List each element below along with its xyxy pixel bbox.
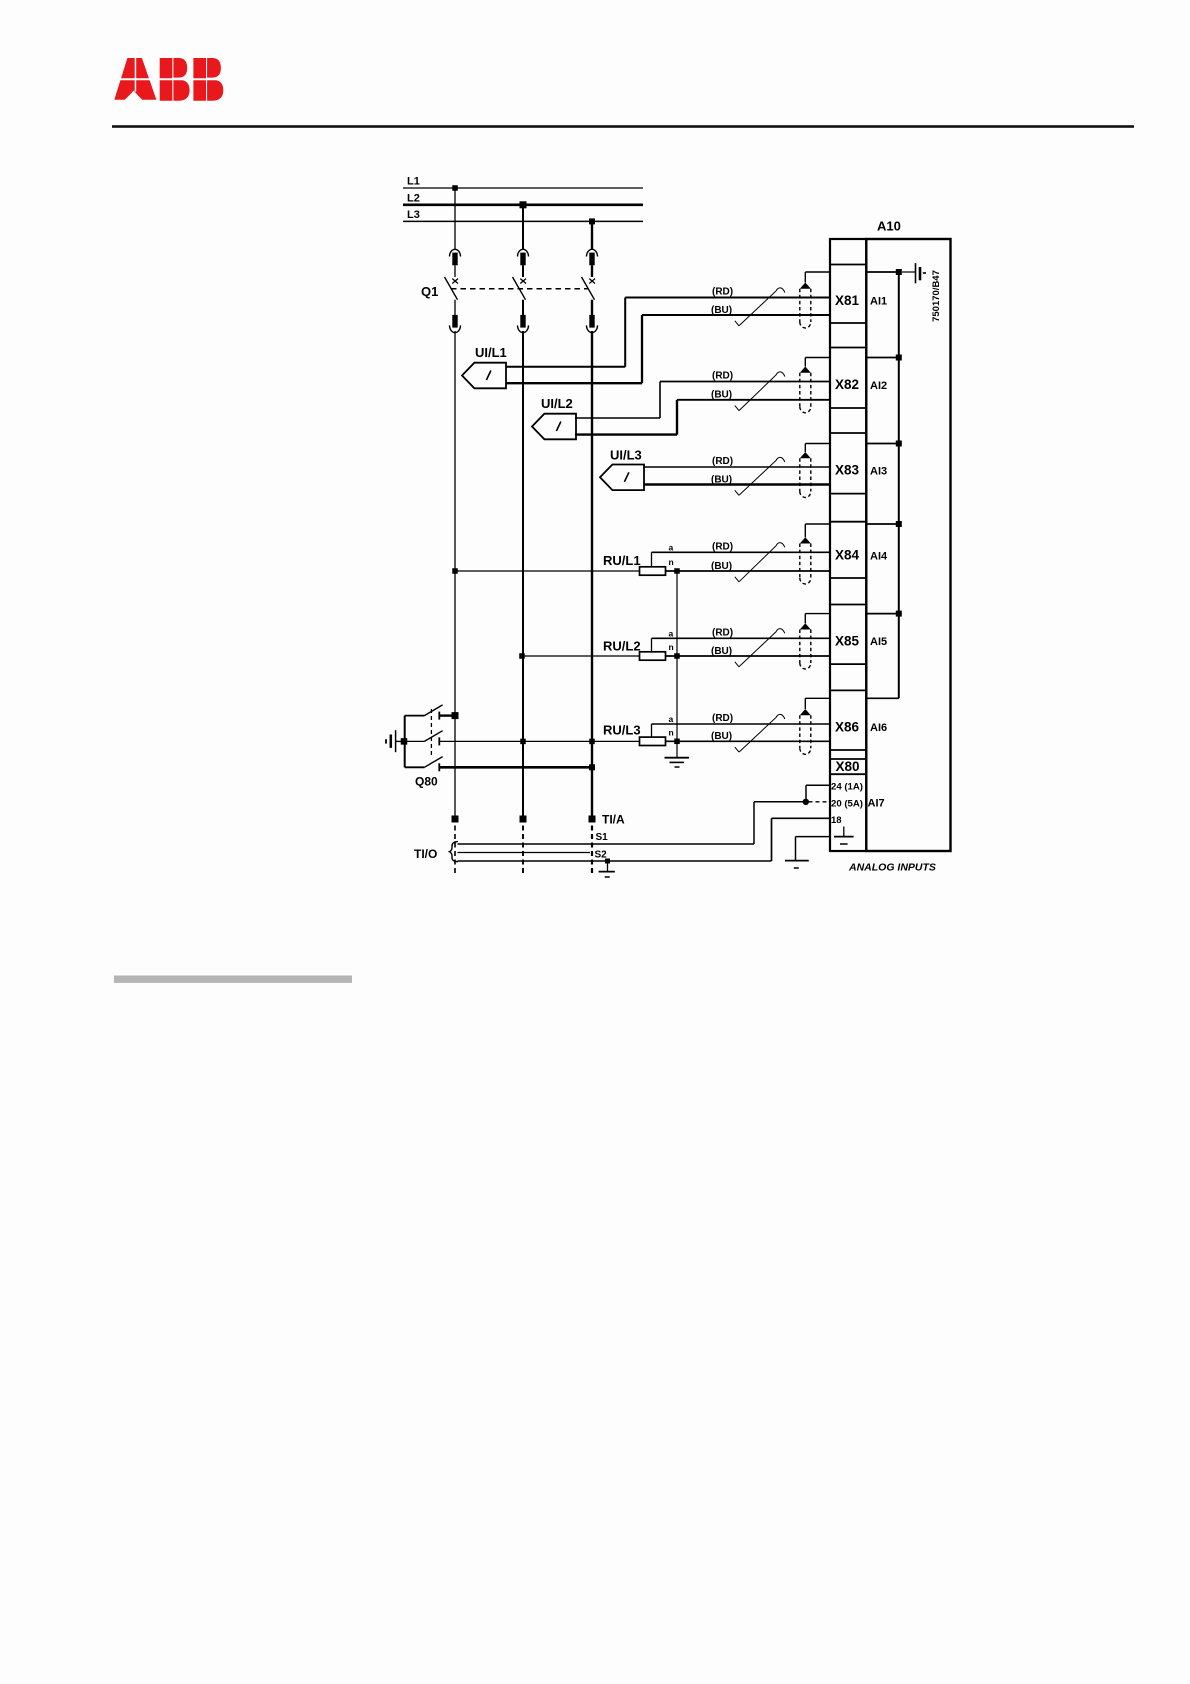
wire phase L2 into breaker <box>522 265 524 277</box>
resistor RU/L1 <box>603 553 666 575</box>
node AI1 common junction <box>896 269 902 275</box>
wire junction to S1 riser <box>754 802 806 844</box>
svg-text:X80: X80 <box>836 759 860 774</box>
node pole2 L3 junction <box>589 739 595 745</box>
svg-text:RU/L3: RU/L3 <box>603 723 641 738</box>
connector plug X86 <box>800 709 811 754</box>
connector plug phase L2 upper <box>518 249 529 265</box>
cable entry TI/O <box>450 842 459 862</box>
terminal strip divider y=604.5 <box>830 604 866 606</box>
wire AI2 drain link <box>866 357 899 359</box>
node TI/A L3 <box>589 816 596 823</box>
node TI/A L2 <box>520 816 527 823</box>
wire AI6 drain link <box>866 697 899 699</box>
wire phase L1 below breaker <box>454 300 456 315</box>
svg-text:n: n <box>669 642 674 652</box>
node AI3 common junction <box>896 441 902 447</box>
wire shield drain X81 <box>805 272 830 283</box>
chassis ground A10 <box>916 263 927 283</box>
wire Q80 pole2 to RU/L3 <box>439 740 639 742</box>
svg-text:(RD): (RD) <box>712 456 733 467</box>
linkage Q80 (dashed) <box>430 709 432 756</box>
connector plug X83 <box>800 452 811 498</box>
shield twist mark X84 <box>735 543 785 582</box>
svg-text:X82: X82 <box>835 377 859 392</box>
connector plug phase L1 upper <box>450 249 461 265</box>
terminal strip divider y=323 <box>830 322 866 324</box>
wire phase L1 main vertical <box>454 331 456 819</box>
svg-text:X84: X84 <box>835 548 860 563</box>
svg-text:UI/L2: UI/L2 <box>541 396 573 411</box>
svg-text:RU/L1: RU/L1 <box>603 553 641 568</box>
breaker Q1 contact mark pole 3 <box>589 279 595 284</box>
svg-text:18: 18 <box>831 815 842 826</box>
terminal strip divider y=264.5 <box>830 264 866 266</box>
wire AI common bus <box>898 272 900 698</box>
wire phase L2 drop from bus <box>522 205 524 249</box>
svg-text:UI/L3: UI/L3 <box>610 448 642 463</box>
ABB logo <box>110 57 226 101</box>
earthing switch Q80 pole 3 <box>405 757 443 772</box>
svg-text:AI2: AI2 <box>870 380 887 392</box>
svg-text:S2: S2 <box>595 850 608 861</box>
svg-text:20 (5A): 20 (5A) <box>831 799 863 810</box>
wire shield drain X84 <box>805 524 830 537</box>
svg-text:X86: X86 <box>835 720 860 735</box>
shield twist mark X83 <box>735 457 785 495</box>
wire RU/L2 terminal n <box>666 655 831 657</box>
bus L3 <box>403 209 643 221</box>
wire phase L3 dashed tail <box>591 826 593 877</box>
svg-text:L2: L2 <box>407 192 420 204</box>
svg-text:AI1: AI1 <box>870 296 887 308</box>
node RU/L1 n junction <box>674 568 680 574</box>
wire UI/L2 n to X82 (BU) <box>575 400 830 435</box>
shield twist mark X86 <box>735 714 785 752</box>
node Q80 ground junction <box>401 738 408 745</box>
breaker Q1 blade pole 3 <box>582 277 595 300</box>
resistor RU/L3 <box>603 723 666 746</box>
wire Q80 pole1 to L1 <box>439 714 455 716</box>
svg-text:(RD): (RD) <box>712 713 733 724</box>
node TI/A L1 <box>452 816 459 823</box>
transducer UI/L1 <box>462 345 507 388</box>
node AI5 common junction <box>896 611 902 617</box>
breaker Q1 contact mark pole 1 <box>452 279 458 284</box>
svg-text:AI7: AI7 <box>868 798 885 810</box>
shield twist mark X82 <box>735 372 785 411</box>
wire shield drain X83 <box>805 444 830 453</box>
wire shield drain X86 <box>805 698 830 709</box>
svg-text:(BU): (BU) <box>711 646 732 657</box>
svg-text:X83: X83 <box>835 463 860 478</box>
svg-text:(BU): (BU) <box>711 305 732 316</box>
svg-text:RU/L2: RU/L2 <box>603 639 641 654</box>
svg-text:AI5: AI5 <box>870 636 887 648</box>
node phase tap for RU/L2 <box>519 653 525 659</box>
earthing switch Q80 pole 1 <box>405 705 443 720</box>
wire phase L1 drop from bus <box>454 188 456 249</box>
svg-text:X81: X81 <box>835 293 860 308</box>
connector plug phase L3 upper <box>587 249 598 265</box>
wire UI/L2 a to X82 (RD) <box>575 382 830 419</box>
transducer UI/L3 <box>600 448 644 491</box>
shield twist mark X81 <box>735 288 785 326</box>
node L1 tap junction <box>452 185 458 191</box>
terminal strip divider y=521.7 <box>830 521 866 523</box>
svg-text:n: n <box>669 727 674 737</box>
wire UI/L3 a to X83 (RD) <box>644 466 830 468</box>
wire shield drain X82 <box>805 358 830 367</box>
wire Q80 pole3 to L3 <box>439 766 592 769</box>
node RU/L3 n junction <box>674 739 680 745</box>
connector plug X85 <box>800 623 811 669</box>
wire RU/L3 terminal n <box>666 740 831 742</box>
terminal strip divider y=493.6 <box>830 493 866 495</box>
terminal strip divider y=433 <box>830 432 866 434</box>
wire phase L1 into breaker <box>454 265 456 277</box>
wire phase L2 below breaker <box>522 300 524 315</box>
terminal strip divider y=578 <box>830 577 866 579</box>
node AI2 common junction <box>896 355 902 361</box>
header rule <box>112 125 1134 128</box>
wire AI3 drain link <box>866 443 899 445</box>
terminal strip divider y=664.1 <box>830 663 866 665</box>
wire UI/L3 n to X83 (BU) <box>644 483 830 485</box>
svg-text:L3: L3 <box>407 209 420 221</box>
terminal strip divider y=347.5 <box>830 347 866 349</box>
node current select junction <box>803 799 809 805</box>
connector plug phase L3 lower <box>587 315 598 333</box>
resistor RU/L2 <box>603 639 666 661</box>
wire UI/L1 a to X81 (RD) <box>506 298 830 367</box>
breaker Q1 contact mark pole 2 <box>520 279 526 284</box>
node phase tap for RU/L1 <box>452 568 458 574</box>
svg-text:(BU): (BU) <box>711 474 732 485</box>
wire phase L3 drop from bus <box>591 221 593 249</box>
wire RU/L3 tap a <box>652 724 831 737</box>
breaker Q1 blade pole 1 <box>445 277 458 300</box>
node AI4 common junction <box>896 521 902 527</box>
svg-text:L1: L1 <box>407 176 420 188</box>
ground RU common <box>665 758 690 767</box>
node RU/L2 n junction <box>674 653 680 659</box>
terminal strip X81-X86/X80 outline <box>830 239 866 851</box>
svg-text:ANALOG INPUTS: ANALOG INPUTS <box>848 862 936 874</box>
wire AI4 drain link <box>866 523 899 525</box>
wire phase L2 main vertical <box>522 331 524 819</box>
svg-text:A10: A10 <box>877 219 901 234</box>
connector plug X82 <box>800 367 811 413</box>
wire RU/L1 tap a <box>652 552 831 567</box>
node Q80 pole1 junction <box>452 712 459 719</box>
connector plug phase L2 lower <box>518 315 529 333</box>
shield twist mark X85 <box>735 629 785 667</box>
svg-text:(RD): (RD) <box>712 287 733 298</box>
wire dashed to terminal 20 <box>809 801 831 803</box>
svg-text:(BU): (BU) <box>711 731 732 742</box>
ground Q80 <box>386 730 396 752</box>
svg-text:TI/A: TI/A <box>602 813 625 827</box>
terminal strip divider y=774.2 <box>830 773 866 775</box>
svg-text:Q80: Q80 <box>415 775 438 789</box>
wire AI1 drain link <box>866 271 899 273</box>
svg-text:a: a <box>669 542 674 552</box>
wire to chassis ground <box>902 271 916 273</box>
wire TI/O middle conductor <box>458 852 591 854</box>
bus L2 <box>403 192 643 205</box>
svg-text:a: a <box>669 714 674 724</box>
terminal strip divider y=408 <box>830 407 866 409</box>
wire RU/L1 terminal n <box>666 570 831 572</box>
svg-text:a: a <box>669 628 674 638</box>
bus L1 <box>403 176 643 189</box>
terminal strip divider y=759 <box>830 758 866 760</box>
svg-text:(BU): (BU) <box>711 561 732 572</box>
svg-text:UI/L1: UI/L1 <box>475 345 507 360</box>
revision bar <box>114 976 352 983</box>
node L3 tap junction <box>589 218 595 224</box>
module A10 box <box>866 239 950 851</box>
svg-text:AI3: AI3 <box>870 466 887 478</box>
wire phase to RU/L2 <box>522 655 640 657</box>
svg-text:X85: X85 <box>835 634 860 649</box>
transducer UI/L2 <box>532 396 576 439</box>
svg-text:(RD): (RD) <box>712 541 733 552</box>
wire phase to RU/L1 <box>455 570 640 572</box>
node Q80 pole3 junction <box>589 764 595 770</box>
node S2 ground tap <box>605 859 610 864</box>
ground S2 <box>599 861 615 877</box>
svg-text:n: n <box>669 557 674 567</box>
connector plug phase L1 lower <box>450 315 461 333</box>
wire phase L3 main vertical <box>591 331 593 819</box>
wire S2 <box>458 860 772 862</box>
svg-text:Q1: Q1 <box>421 284 438 299</box>
connector plug X81 <box>800 283 811 329</box>
svg-text:750170/B47: 750170/B47 <box>931 270 942 322</box>
wire terminal 18 riser <box>772 818 831 861</box>
terminal strip divider y=750 <box>830 749 866 751</box>
svg-text:(RD): (RD) <box>712 371 733 382</box>
wire phase L3 into breaker <box>591 265 593 277</box>
wire UI/L1 n to X81 (BU) <box>506 315 830 383</box>
earthing switch Q80 pole 2 <box>405 731 443 746</box>
breaker Q1 linkage (dashed) <box>451 288 588 290</box>
wire shield drain X85 <box>805 614 830 624</box>
connector plug X84 <box>800 537 811 584</box>
breaker Q1 blade pole 2 <box>513 277 526 300</box>
svg-text:AI6: AI6 <box>870 722 887 734</box>
terminal strip divider y=690.4 <box>830 689 866 691</box>
earthing switch Q80 rail <box>404 716 406 768</box>
ground X80 internal <box>834 827 854 845</box>
svg-text:(RD): (RD) <box>712 627 733 638</box>
svg-text:(BU): (BU) <box>711 390 732 401</box>
wire RU/L2 tap a <box>652 638 831 652</box>
wire terminal 24 to junction <box>806 785 830 802</box>
wire RU common neutral <box>676 571 678 757</box>
node pole2 L2 junction <box>520 739 526 745</box>
wire AI5 drain link <box>866 613 899 615</box>
svg-text:AI4: AI4 <box>870 551 888 563</box>
svg-text:S1: S1 <box>596 832 609 843</box>
svg-text:24 (1A): 24 (1A) <box>831 782 863 793</box>
wire S1 <box>458 843 755 845</box>
ground X80 external <box>785 837 830 868</box>
wire phase L1 dashed tail <box>454 826 456 877</box>
svg-text:TI/O: TI/O <box>414 847 437 861</box>
wire phase L3 below breaker <box>591 300 593 315</box>
wire Q80 to ground <box>396 740 404 742</box>
wire phase L2 dashed tail <box>522 826 524 877</box>
node L2 tap junction <box>520 201 527 208</box>
